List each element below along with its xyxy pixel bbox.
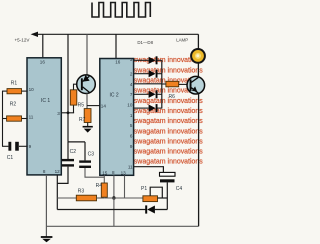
svg-text:swagatam innovations: swagatam innovations (134, 147, 203, 156)
svg-text:C4: C4 (176, 186, 183, 192)
diode D4 (134, 104, 162, 112)
wire Q1 node to IC2 pin14 (87, 105, 100, 107)
resistor R2 (7, 116, 22, 121)
svg-text:13: 13 (121, 171, 127, 176)
clock waveform (92, 3, 150, 18)
svg-text:11: 11 (128, 165, 133, 170)
svg-text:D1—D8: D1—D8 (137, 40, 153, 45)
svg-text:+5-12V: +5-12V (15, 37, 31, 42)
transistor Q1 (77, 75, 96, 94)
wire bottom rail A right (155, 209, 168, 211)
wire rail to IC1 pin16 (42, 34, 44, 58)
resistor R1 (7, 89, 22, 94)
svg-text:9: 9 (29, 144, 32, 149)
ground below R7 (83, 127, 93, 133)
node osc junction (67, 111, 70, 114)
wire C1 to IC1 pin9 (19, 145, 28, 147)
ground bottom left (41, 237, 53, 242)
wire R1 left stub (2, 90, 7, 92)
wire C2 bottom to IC1 pin12 (57, 167, 68, 184)
svg-text:R4: R4 (96, 183, 103, 189)
wire joint down to C3 (84, 142, 86, 161)
svg-text:swagatam innovations: swagatam innovations (134, 157, 203, 166)
wire top supply rail (36, 33, 198, 35)
resistor R7 (84, 109, 91, 123)
svg-text:2: 2 (130, 71, 133, 76)
svg-text:1: 1 (130, 113, 133, 118)
wire R7 to ground (87, 123, 89, 127)
wire IC2 pin4 row to bus (134, 83, 162, 85)
svg-text:10: 10 (127, 102, 133, 107)
IC U1 labels (29, 59, 61, 174)
supply arrow +5-12V (31, 32, 38, 37)
resistor R4 (101, 183, 107, 197)
svg-text:swagatam innovations: swagatam innovations (134, 126, 203, 135)
capacitor C2 (62, 159, 74, 167)
wire node row to P1 (104, 197, 143, 199)
resistor R3 (76, 195, 96, 201)
wire R4 bottom stub (103, 196, 105, 199)
potentiometer P1 (143, 196, 158, 202)
svg-text:14: 14 (101, 104, 107, 109)
capacitor C1 (8, 142, 18, 151)
svg-text:LAMP: LAMP (176, 37, 188, 42)
svg-text:16: 16 (115, 60, 121, 65)
svg-text:4: 4 (130, 82, 133, 87)
transistor Q2 (187, 76, 205, 94)
svg-text:16: 16 (40, 59, 46, 64)
wire IC2 pin13 down (124, 175, 126, 198)
wire node up to R5 (73, 105, 75, 113)
svg-text:C3: C3 (88, 152, 95, 158)
svg-text:10: 10 (29, 87, 35, 92)
lamp (191, 49, 205, 63)
svg-text:3: 3 (57, 111, 60, 116)
wire rail to IC2 pin16 (115, 34, 117, 58)
wire rail to lamp (197, 34, 199, 50)
wire bus to R6 (162, 83, 166, 85)
svg-text:swagatam innovations: swagatam innovations (134, 106, 203, 115)
svg-text:15: 15 (102, 171, 108, 176)
svg-text:swagatam innovations: swagatam innovations (134, 65, 203, 74)
wire diode bus (161, 60, 163, 108)
capacitor C4 (160, 172, 176, 182)
wire IC1 pin8 to ground (45, 175, 47, 237)
svg-text:C2: C2 (70, 149, 77, 155)
wire joint down to C2 (67, 142, 69, 159)
IC U2 labels (101, 57, 133, 175)
svg-text:R3: R3 (78, 189, 85, 195)
svg-text:R7: R7 (79, 117, 86, 123)
svg-text:7: 7 (130, 92, 133, 97)
wire C1 left stub (2, 145, 8, 147)
wire junction down to ground rail (113, 198, 115, 226)
wire R2 left stub (2, 118, 7, 120)
resistor R6 (166, 81, 179, 87)
wire R3 to R4 node (97, 197, 105, 199)
wire IC2 pin8 down (113, 175, 115, 198)
IC U2 body (100, 59, 134, 176)
wire IC1 pin3 to node (61, 112, 74, 114)
wire left bus vertical (2, 91, 4, 146)
svg-text:C1: C1 (7, 155, 14, 161)
svg-text:IC 2: IC 2 (110, 93, 119, 99)
wire IC1 pin12 down (56, 175, 58, 210)
wire rail to Q1 collector (86, 34, 88, 75)
wire C3 bottom to IC2 pin15 (85, 168, 104, 177)
watermark text rows (134, 55, 203, 166)
wire R3 left branch (57, 197, 76, 199)
diode D2 (134, 70, 162, 78)
svg-text:R1: R1 (11, 81, 18, 87)
svg-text:11: 11 (29, 114, 34, 119)
wire Q1 emitter down (86, 93, 88, 108)
wire rail down to oscillator node (67, 34, 69, 142)
node pin8 junction (112, 196, 115, 199)
wire Q2 emitter to ground rail (198, 94, 200, 227)
svg-text:R5: R5 (78, 103, 85, 109)
svg-text:P1: P1 (141, 186, 147, 192)
wire P1 right to C4 branch (158, 197, 168, 199)
capacitor C3 (79, 160, 91, 168)
wire R6 to Q2 base (179, 83, 190, 85)
resistor R5 (70, 90, 77, 105)
svg-text:5: 5 (130, 123, 133, 128)
diode D1 (134, 56, 162, 64)
IC U1 body (27, 58, 61, 175)
svg-text:IC 1: IC 1 (41, 98, 50, 104)
wire bottom rail A left (57, 209, 145, 211)
diode D9 (145, 205, 155, 213)
svg-text:8: 8 (112, 170, 115, 175)
svg-text:R6: R6 (169, 94, 176, 100)
svg-text:8: 8 (43, 169, 46, 174)
svg-text:swagatam innovations: swagatam innovations (134, 116, 203, 125)
wire P1 wiper loop (150, 187, 162, 198)
wire C2 C3 top joint (68, 141, 85, 143)
svg-text:3: 3 (130, 57, 133, 62)
wire Q1 base lead (74, 84, 82, 90)
wire lamp to Q2 collector (197, 63, 199, 77)
svg-text:swagatam innovations: swagatam innovations (134, 136, 203, 145)
wire C4 branch vertical (166, 182, 168, 209)
svg-text:12: 12 (55, 169, 61, 174)
diode D3 (134, 90, 162, 98)
wire R1 to IC1 pin10 (22, 90, 28, 92)
wire ground rail B (46, 225, 198, 227)
wire IC2 pin11 to C4 top (134, 167, 164, 173)
svg-text:R2: R2 (10, 102, 17, 108)
svg-text:6: 6 (130, 133, 133, 138)
svg-text:9: 9 (130, 144, 133, 149)
wire R2 to IC1 pin11 (22, 118, 28, 120)
wire IC2 pin15 to R4 (103, 175, 105, 183)
